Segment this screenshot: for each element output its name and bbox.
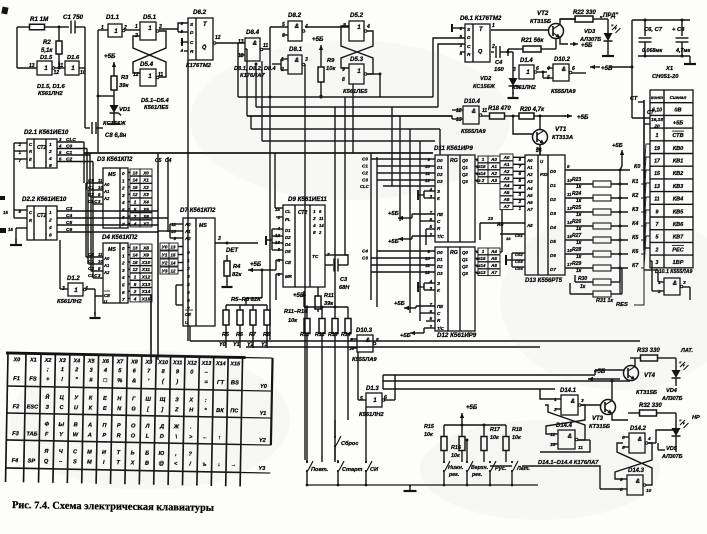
wire switch links: [443, 461, 445, 463]
svg-text:Х4: Х4: [142, 200, 149, 205]
svg-text:VT1: VT1: [555, 126, 567, 133]
svg-text:S: S: [190, 22, 194, 28]
svg-text:11: 11: [263, 43, 268, 49]
wire VT3 collector emitter: [611, 381, 613, 401]
svg-text:12: 12: [132, 267, 138, 272]
wire D8.2 to D5.2: [305, 26, 349, 28]
scan artifact left edge: [0, 196, 5, 200]
switch Nizhn reg: [443, 461, 445, 463]
svg-text:E: E: [29, 157, 32, 162]
svg-text:3: 3: [581, 398, 584, 404]
wire long horizontal mid2: [246, 346, 540, 348]
capacitor C8 6,8n: [91, 122, 93, 134]
wire D13 Ucc: [539, 150, 541, 155]
ground bottom: [409, 485, 411, 491]
svg-text:11: 11: [98, 252, 103, 257]
svg-text:6: 6: [122, 215, 125, 220]
svg-text:КТ315Б: КТ315Б: [636, 390, 657, 396]
svg-text:С1 750: С1 750: [63, 14, 84, 21]
wire D10.2 out +5V arrow: [572, 72, 586, 74]
svg-text:СТ2: СТ2: [37, 213, 46, 219]
svg-text:+5Б: +5Б: [250, 262, 262, 268]
svg-text:6: 6: [319, 209, 322, 214]
svg-text:R: R: [190, 49, 194, 55]
svg-text:D12 К561ИР9: D12 К561ИР9: [437, 332, 477, 339]
svg-text:5: 5: [360, 396, 363, 402]
wire D1.3 connections: [358, 399, 366, 401]
svg-text:0,068мк: 0,068мк: [642, 48, 662, 54]
wire VT2 emitter +5V: [560, 37, 568, 44]
wire cross coupling D5.2 D5.3: [341, 31, 373, 68]
svg-text:D8: D8: [285, 249, 291, 254]
svg-text:15: 15: [132, 185, 138, 190]
wire A4-A7 bus up: [501, 210, 503, 252]
svg-text:R25: R25: [572, 205, 581, 211]
svg-text:Х13: Х13: [141, 282, 151, 288]
svg-text:Х1: Х1: [665, 66, 673, 72]
resistor R7: [252, 305, 254, 310]
svg-text:+5Б: +5Б: [601, 65, 613, 72]
svg-text:1: 1: [71, 65, 75, 72]
svg-text:Q: Q: [478, 49, 483, 55]
svg-text:10: 10: [98, 259, 103, 264]
svg-text:+5Б: +5Б: [612, 143, 623, 149]
svg-text:8: 8: [49, 163, 52, 169]
svg-text:4: 4: [48, 156, 52, 162]
power +5V D11 TC: [397, 238, 399, 240]
svg-text:6: 6: [59, 157, 62, 162]
svg-text:К: К: [437, 196, 441, 201]
svg-text:15: 15: [132, 260, 138, 265]
wire D11 strobe stub: [424, 190, 435, 192]
wire long horizontal mid4: [383, 380, 630, 382]
wire D9 CL PL: [275, 207, 283, 209]
svg-text:5: 5: [429, 316, 432, 321]
svg-text:R21 56к: R21 56к: [521, 38, 544, 44]
wire D3 select inputs: [86, 182, 103, 184]
svg-text:D14.1: D14.1: [560, 388, 577, 394]
wire D6.1 input stubs: [452, 27, 465, 29]
svg-text:15: 15: [3, 210, 8, 215]
wire D2.1 inputs: [14, 142, 27, 144]
wire top cap rail: [632, 19, 690, 21]
svg-text:0: 0: [122, 246, 125, 251]
svg-text:R: R: [29, 218, 32, 223]
svg-text:А5: А5: [490, 256, 497, 261]
svg-text:F1: F1: [13, 376, 20, 382]
svg-text:3: 3: [98, 273, 101, 278]
svg-text:6: 6: [282, 33, 285, 39]
wire RES to connector: [634, 250, 644, 305]
svg-text:Х8: Х8: [142, 245, 149, 251]
svg-text:А3: А3: [526, 179, 533, 184]
svg-text:9: 9: [98, 266, 101, 271]
svg-text:А0: А0: [526, 158, 533, 163]
wire R11-R14 top rail: [304, 306, 348, 308]
wire R20 to +5V: [540, 115, 566, 117]
svg-text:160: 160: [494, 67, 504, 73]
svg-text:D5.1: D5.1: [143, 14, 157, 21]
svg-text:1: 1: [122, 178, 125, 183]
switch Sbros: [334, 420, 336, 436]
svg-text:D1: D1: [437, 257, 443, 262]
svg-text:С2: С2: [88, 192, 94, 197]
svg-text:D8.2: D8.2: [288, 12, 302, 19]
wire D7 bottom: [189, 326, 191, 341]
svg-text:D1.2: D1.2: [67, 276, 80, 282]
svg-text:АЛ307Б: АЛ307Б: [661, 396, 683, 402]
ground D2.2: [15, 239, 17, 245]
svg-text:D1.6: D1.6: [67, 55, 80, 61]
svg-text:С0: С0: [66, 144, 72, 150]
svg-text:D2: D2: [550, 197, 556, 202]
svg-text:К561ЛЕ5: К561ЛЕ5: [144, 105, 169, 111]
svg-text:D3: D3: [437, 271, 443, 276]
svg-text:У1: У1: [162, 253, 168, 259]
svg-text:3: 3: [218, 236, 221, 242]
svg-text:+5Б: +5Б: [388, 211, 399, 217]
power +5V arrow DET: [247, 269, 249, 271]
svg-text:4: 4: [133, 296, 137, 301]
svg-text:10к: 10к: [288, 318, 298, 324]
svg-text:5: 5: [59, 150, 62, 155]
svg-text:24: 24: [535, 146, 541, 151]
wire ST to table: [644, 123, 650, 125]
svg-text:Q2: Q2: [462, 264, 468, 269]
svg-text:D5.1–D5.4: D5.1–D5.4: [141, 98, 169, 104]
svg-text:Т/С: Т/С: [437, 326, 445, 331]
svg-text:1: 1: [373, 397, 377, 404]
wire verticals D11 feed: [391, 107, 393, 186]
connector table X1: [650, 90, 693, 268]
svg-text:Х0: Х0: [13, 357, 21, 363]
svg-text:11: 11: [319, 216, 324, 221]
svg-text:Q1: Q1: [462, 257, 468, 262]
svg-text:D1.1: D1.1: [106, 14, 120, 21]
svg-text:1: 1: [656, 133, 659, 139]
svg-text:+5Б: +5Б: [673, 120, 683, 126]
svg-text:R13: R13: [328, 332, 338, 338]
svg-text:5: 5: [134, 282, 137, 287]
svg-text:АЛ307Б: АЛ307Б: [661, 454, 683, 460]
wire D2.2 outputs C3-C6: [57, 210, 158, 212]
svg-text:конт: конт: [651, 95, 663, 100]
svg-text:ТС: ТС: [312, 254, 319, 260]
svg-text:R20 4,7к: R20 4,7к: [520, 107, 545, 113]
switch Verhn reg: [466, 461, 468, 463]
svg-text:4: 4: [546, 66, 550, 72]
svg-text:1: 1: [49, 210, 52, 216]
wire long horizontal mid1: [190, 340, 640, 342]
svg-text:23: 23: [487, 216, 493, 221]
svg-text:КВ0: КВ0: [673, 146, 684, 152]
svg-text:+5Б: +5Б: [400, 333, 411, 339]
node D4 output labels X8-X15: [130, 244, 140, 251]
svg-text:D3: D3: [550, 211, 556, 216]
wire cap bottoms: [638, 55, 690, 57]
svg-text:R22 330: R22 330: [573, 10, 596, 16]
svg-text:R3: R3: [121, 75, 129, 81]
svg-text:1: 1: [492, 23, 495, 29]
wire D9 MR: [276, 273, 283, 275]
svg-text:А3: А3: [490, 178, 497, 183]
svg-text:2: 2: [133, 214, 137, 219]
svg-text:7: 7: [122, 222, 125, 227]
svg-text:D6.1 К176ТМ2: D6.1 К176ТМ2: [460, 15, 502, 22]
svg-text:3: 3: [518, 192, 521, 197]
svg-text:4,7мк: 4,7мк: [675, 48, 690, 54]
capacitor C3 68n: [325, 264, 333, 266]
svg-text:2: 2: [491, 44, 495, 50]
svg-text:&: &: [253, 41, 257, 47]
wire verticals top mid: [352, 84, 354, 153]
svg-text:C: C: [190, 40, 194, 46]
svg-text:СТ: СТ: [647, 110, 655, 116]
wire VT2 collector R22: [560, 19, 576, 25]
svg-text:Q̄: Q̄: [202, 44, 207, 51]
svg-text:А2: А2: [526, 172, 533, 177]
svg-text:КТ313А: КТ313А: [552, 135, 573, 141]
wire bottom common: [307, 484, 538, 486]
wire VT1 base bias: [513, 116, 533, 134]
svg-text:R11: R11: [324, 293, 334, 299]
resistor R31 1k: [570, 293, 593, 295]
svg-text:1: 1: [357, 24, 361, 31]
svg-text:PL: PL: [285, 217, 291, 222]
svg-text:С1: С1: [66, 150, 72, 156]
svg-text:А4: А4: [526, 186, 533, 191]
svg-text:D1.4: D1.4: [520, 58, 533, 64]
svg-text:З: З: [437, 189, 440, 194]
svg-text:А7: А7: [503, 204, 510, 209]
svg-text:СИ: СИ: [370, 467, 379, 473]
wire long y116: [247, 115, 452, 117]
svg-text:Х10: Х10: [141, 260, 151, 266]
svg-text:D1.5, D1.6: D1.5, D1.6: [37, 84, 65, 90]
wire osc left: [16, 27, 18, 68]
svg-text:D4 К561КП2: D4 К561КП2: [102, 234, 138, 241]
svg-text:5: 5: [282, 22, 285, 28]
svg-text:СТ2: СТ2: [298, 210, 307, 216]
svg-text:+5Б: +5Б: [388, 239, 399, 245]
svg-text:СТ2: СТ2: [37, 145, 46, 151]
svg-text:+5Б: +5Б: [394, 301, 405, 307]
wire D5.1 to D6.2: [159, 28, 178, 30]
svg-text:MS: MS: [108, 247, 116, 253]
svg-text:D2: D2: [285, 235, 291, 240]
zener VD1 KS156Zh: [113, 100, 115, 105]
wire bottom right links: [540, 389, 555, 399]
svg-text:А7: А7: [526, 207, 533, 212]
svg-text:13: 13: [132, 245, 138, 250]
svg-text:D0: D0: [437, 250, 443, 255]
svg-text:CLC: CLC: [66, 137, 76, 143]
svg-text:С3: С3: [362, 256, 368, 261]
svg-text:Старт: Старт: [342, 467, 363, 473]
power +5V D12 TC: [409, 332, 411, 334]
wire +5V rail right: [610, 66, 632, 68]
wire +5V into connector: [632, 117, 650, 119]
svg-text:К561ЛН2: К561ЛН2: [38, 91, 63, 97]
svg-text:&: &: [562, 67, 566, 73]
svg-text:2: 2: [312, 216, 316, 222]
svg-text:К: К: [437, 288, 441, 293]
power +5V D11 PE: [397, 217, 399, 219]
wire vertical into D1.1: [97, 30, 99, 152]
svg-text:D1.5: D1.5: [40, 55, 53, 61]
svg-text:1: 1: [44, 65, 48, 72]
svg-text:12: 12: [132, 192, 138, 197]
svg-text:4: 4: [58, 144, 62, 149]
node Y0-Y3 labels into D7: [160, 243, 169, 250]
svg-text:14: 14: [481, 263, 486, 268]
wire VT4 base: [595, 369, 624, 371]
svg-text:Х7: Х7: [142, 221, 149, 226]
wire Y stubs: [225, 330, 227, 348]
svg-text:ПЕ: ПЕ: [437, 212, 444, 217]
switch Start: [337, 461, 339, 463]
resistor R18b 10k: [505, 425, 507, 437]
svg-text:VT3: VT3: [592, 416, 604, 422]
svg-text:R23: R23: [572, 177, 581, 183]
wire matrix feed vertical: [150, 295, 152, 360]
svg-text:4: 4: [48, 225, 52, 231]
wire D7 address inputs: [170, 223, 183, 225]
svg-text:MR: MR: [285, 274, 293, 279]
wire cross D14.2 D14.3: [615, 443, 652, 479]
svg-text:Х3: Х3: [58, 358, 66, 364]
svg-text:С2: С2: [66, 157, 72, 163]
svg-text:3: 3: [122, 193, 125, 198]
svg-text:Сигнал: Сигнал: [670, 95, 687, 100]
svg-text:А1: А1: [526, 165, 533, 170]
svg-text:D1: D1: [285, 228, 291, 233]
keyboard matrix table: [4, 353, 273, 487]
svg-text:С6, С7: С6, С7: [644, 27, 663, 33]
svg-text:1: 1: [526, 69, 530, 76]
node A0-A7 labels near D13: [500, 154, 513, 161]
svg-text:Х3: Х3: [142, 192, 149, 197]
svg-text:А4: А4: [503, 183, 510, 188]
svg-text:1: 1: [135, 24, 138, 30]
svg-text:2: 2: [121, 261, 125, 266]
svg-text:13: 13: [171, 245, 176, 250]
scan artifact top-left: [1, 6, 8, 14]
svg-text:R: R: [437, 318, 441, 323]
svg-text:C: C: [29, 142, 33, 147]
svg-text:1: 1: [134, 200, 137, 205]
wire osc output down: [84, 68, 86, 128]
svg-text:К561ЛН2: К561ЛН2: [512, 85, 537, 91]
transistor VT3 KT315B: [601, 400, 616, 415]
wire +5V pullup rail: [619, 170, 621, 294]
svg-text:13: 13: [654, 184, 660, 190]
svg-text:Y3: Y3: [258, 466, 266, 472]
svg-text:+5Б: +5Б: [577, 114, 589, 121]
svg-text:7: 7: [122, 297, 125, 302]
svg-text:Х5: Х5: [142, 207, 149, 212]
wire long horizontal mid5: [383, 388, 555, 390]
svg-text:14: 14: [132, 178, 138, 183]
resistor R30 1k: [575, 281, 593, 283]
svg-text:А3: А3: [503, 176, 510, 181]
svg-text:К555ЛА9: К555ЛА9: [551, 89, 576, 95]
svg-text:2: 2: [553, 407, 557, 413]
svg-text:СЕ: СЕ: [285, 260, 292, 265]
svg-text:2: 2: [48, 149, 52, 155]
svg-text:КВ1: КВ1: [673, 159, 684, 165]
svg-text:Q3: Q3: [462, 179, 468, 184]
wire cross D14.1 D14.4: [546, 405, 585, 434]
svg-text:1: 1: [313, 209, 316, 215]
svg-text:CLC: CLC: [88, 199, 98, 204]
svg-text:1: 1: [122, 253, 125, 258]
svg-text:Сброс: Сброс: [341, 440, 359, 447]
svg-text:СН051-20: СН051-20: [652, 74, 679, 80]
svg-text:У0: У0: [162, 245, 168, 251]
svg-text:D0: D0: [550, 169, 556, 174]
wire osc right: [84, 27, 86, 68]
svg-text:1: 1: [74, 287, 78, 294]
zener VD2 KS156Zh: [512, 52, 514, 70]
svg-text:2: 2: [517, 199, 521, 204]
wire K rows to connector: [641, 144, 650, 170]
svg-text:F4: F4: [12, 458, 20, 464]
svg-text:К2: К2: [632, 193, 638, 199]
wire D11 data inputs: [371, 158, 435, 160]
wire VT1 emitter to D13 Ucc: [539, 144, 541, 155]
svg-text:D5.4: D5.4: [140, 61, 154, 68]
svg-text:4: 4: [312, 223, 316, 229]
svg-text:39к: 39к: [119, 83, 129, 89]
svg-text:D: D: [190, 30, 194, 36]
svg-text:CL: CL: [285, 209, 291, 214]
svg-text:D4: D4: [285, 242, 291, 247]
svg-text:6: 6: [122, 290, 125, 295]
svg-text:R2: R2: [43, 40, 51, 46]
wire D9 data input stubs: [272, 228, 283, 230]
ground caps: [689, 58, 691, 64]
svg-text:3: 3: [59, 137, 62, 142]
svg-text:&: &: [295, 24, 299, 30]
svg-text:A0: A0: [103, 182, 110, 187]
svg-text:D7 К561КП2: D7 К561КП2: [180, 207, 216, 214]
wire R5-R8 top rail: [226, 304, 267, 306]
svg-text:D1: D1: [550, 183, 556, 188]
svg-text:5: 5: [122, 283, 125, 288]
resistor R6: [239, 305, 241, 310]
svg-text:4: 4: [179, 48, 183, 53]
svg-text:18: 18: [506, 236, 511, 241]
svg-text:3: 3: [513, 67, 516, 73]
svg-text:D3 К561КП2: D3 К561КП2: [97, 156, 133, 163]
svg-text:С8 6,8н: С8 6,8н: [105, 133, 127, 139]
svg-text:У3: У3: [162, 269, 168, 275]
svg-text:A0: A0: [103, 256, 110, 261]
svg-text:К561ЛН2: К561ЛН2: [57, 299, 82, 305]
svg-text:Y0: Y0: [219, 342, 226, 348]
svg-text:D2: D2: [437, 264, 443, 269]
svg-text:ПЕ: ПЕ: [437, 304, 444, 309]
power +5V D12 PE: [403, 307, 405, 309]
svg-text:R15: R15: [424, 424, 435, 430]
svg-text:КВ4: КВ4: [673, 197, 684, 203]
wire D12 strobe stub: [424, 282, 435, 284]
svg-text:&: &: [571, 399, 575, 405]
svg-text:D1.3: D1.3: [366, 386, 379, 392]
bus vertical connector: [643, 100, 645, 250]
svg-text:„ПРД": „ПРД": [599, 13, 618, 19]
